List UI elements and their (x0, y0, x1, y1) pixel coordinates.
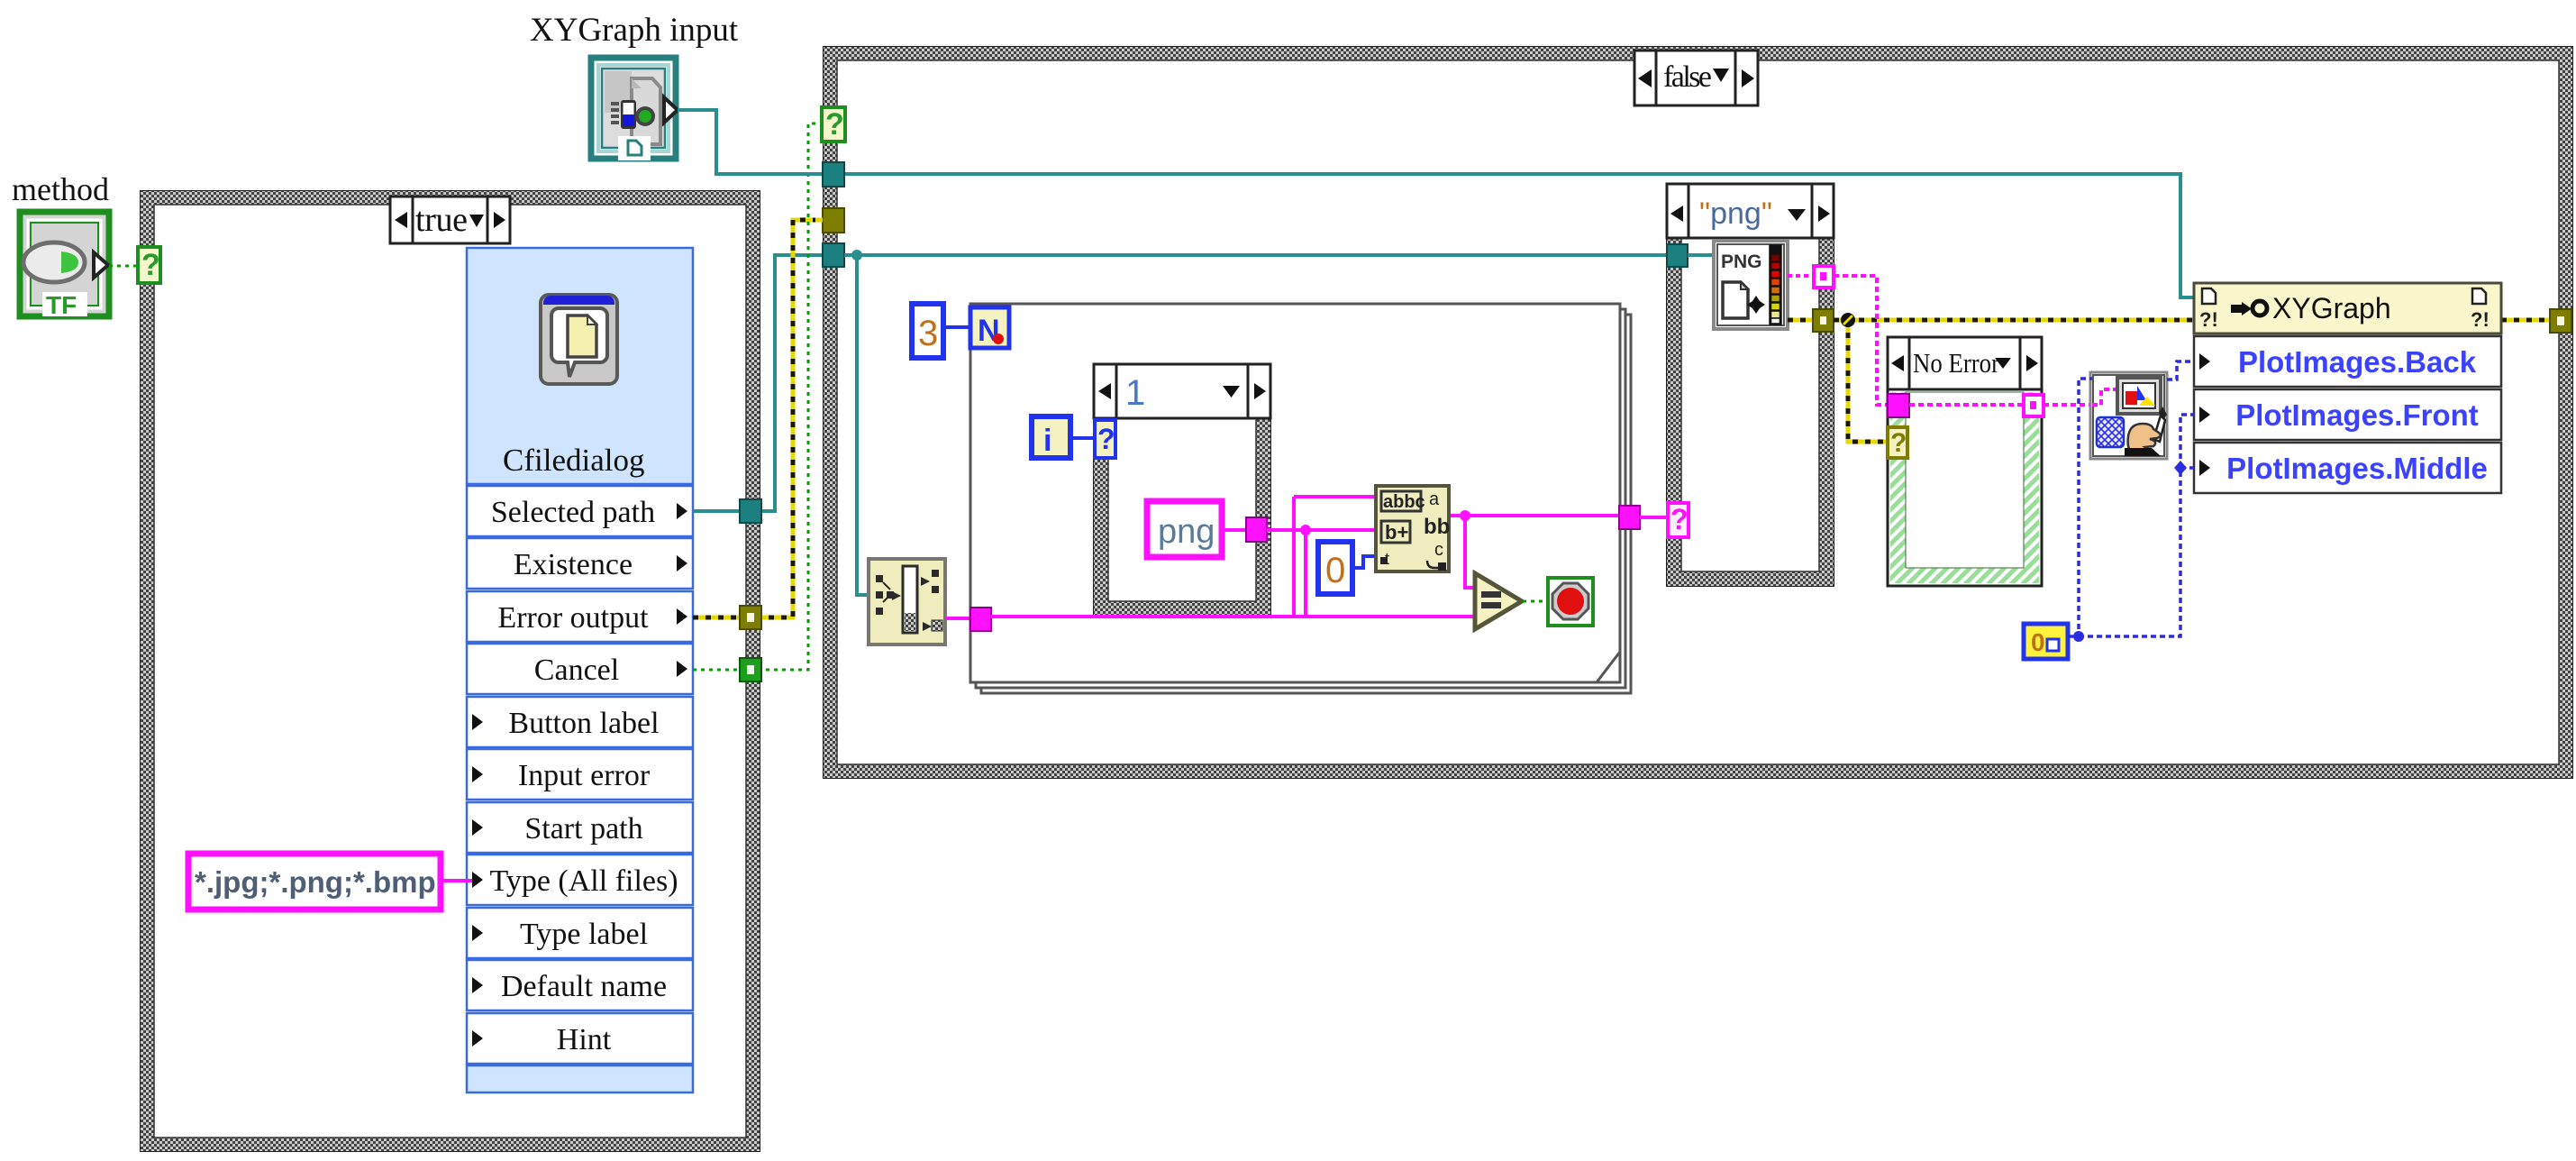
property node rows (467, 486, 693, 1092)
svg-text:Input error: Input error (518, 759, 651, 792)
wire image data (pink dotted) PNG -> tunnel (1788, 274, 1813, 278)
control terminal XYGraph input (teal refnum) (591, 58, 678, 160)
svg-text:false: false (1663, 60, 1712, 94)
wire picture (blue): constant -> draw vi input (2068, 379, 2092, 636)
svg-text:3: 3 (918, 314, 938, 353)
row arrows (472, 503, 687, 1047)
boolean stop terminal (1548, 578, 1593, 626)
tunnel path (png case, teal) (1667, 244, 1688, 267)
function search/replace string (abbc) (1376, 486, 1450, 571)
property node Cfiledialog : header (467, 248, 693, 484)
svg-text:b+: b+ (1385, 521, 1408, 544)
tunnel XYGraph refnum (false case, teal) (823, 162, 844, 187)
case selector terminal ? (green) on false case (822, 107, 845, 142)
svg-text:bb: bb (1424, 515, 1450, 539)
tunnel image data in (No Error case, pink) (1888, 394, 1909, 417)
svg-text:Error output: Error output (497, 601, 649, 635)
selector label "false" (1634, 50, 1758, 105)
olive stub left of tunnel (815, 218, 823, 223)
string constant png (1147, 501, 1222, 557)
comparison equal? (1475, 573, 1522, 629)
svg-text:Type label: Type label (520, 918, 648, 951)
tunnel Error output (true case) (740, 606, 761, 629)
svg-text:Default name: Default name (501, 970, 667, 1003)
svg-text:TF: TF (46, 291, 77, 319)
junction picture wire (2073, 631, 2084, 642)
svg-text:PlotImages.Middle: PlotImages.Middle (2226, 452, 2488, 485)
wire image data inside No Error (pink dotted) (1909, 403, 2023, 407)
svg-text:i: i (1043, 424, 1051, 458)
wire picture (blue): draw vi out -> Back (2167, 361, 2194, 379)
svg-text:*.jpg;*.png;*.bmp: *.jpg;*.png;*.bmp (195, 865, 436, 899)
wire image data (pink) tunnel -> No Error case (1834, 276, 1889, 405)
svg-text:png: png (1158, 513, 1215, 551)
junction error wire (1841, 313, 1855, 327)
wire boolean method -> case selector (109, 265, 141, 268)
svg-text:abbc: abbc (1383, 492, 1425, 512)
inner CASE structure (selector "1") (1094, 418, 1270, 616)
wire image data -> draw vi (pink dotted) (2044, 403, 2092, 407)
selector label "true" (390, 197, 510, 243)
wire filenames array (pink) icon -> for loop (945, 617, 970, 620)
tunnel png string (inner case, pink) (1246, 517, 1267, 542)
svg-text:method: method (12, 171, 109, 207)
svg-text:"png": "png" (1699, 197, 1772, 231)
pink wires: png string to search node and compare (991, 497, 1619, 617)
svg-text:0: 0 (2031, 628, 2045, 656)
wire picture (blue): constant -> Front/Middle (2079, 415, 2194, 636)
svg-text:?!: ?! (2199, 308, 2218, 331)
svg-text:XYGraph input: XYGraph input (530, 12, 739, 49)
svg-text:Button label: Button label (508, 707, 659, 740)
wire XYGraph refnum (teal, long) (678, 110, 2194, 297)
tunnel image data (png case right) (1814, 266, 1834, 288)
svg-text:?!: ?! (2471, 308, 2490, 331)
string constant *.jpg;*.png;*.bmp (188, 854, 441, 910)
wire selected path inside false case (teal) (844, 253, 1669, 257)
svg-text:Start path: Start path (524, 812, 642, 846)
svg-text:PlotImages.Front: PlotImages.Front (2235, 398, 2479, 432)
vi Draw Flattened Pixmap (2090, 372, 2167, 459)
svg-text:PNG: PNG (1721, 251, 1762, 272)
svg-text:?: ? (1097, 423, 1115, 455)
loop count terminal N (970, 307, 1009, 348)
wire path -> PNG vi (1688, 253, 1714, 257)
tunnel filenames (for loop, pink) (970, 608, 991, 631)
svg-text:Type (All files): Type (All files) (489, 864, 678, 898)
case structure TRUE (outer frame) (141, 191, 760, 1151)
tunnel error out (false case right, olive) (2550, 309, 2571, 333)
wire i -> inner case selector (blue) (1070, 436, 1096, 440)
svg-text:?: ? (1890, 428, 1907, 458)
numeric constant 0 (1318, 542, 1352, 594)
wire error long (olive) tunnel -> property node -> out (1834, 320, 2551, 442)
svg-text:?: ? (1670, 503, 1689, 535)
svg-text:?: ? (825, 107, 844, 142)
wire equal -> stop (green dotted) (1523, 600, 1548, 603)
property node XYGraph : header (2194, 283, 2501, 334)
wire 0 -> search node (blue) (1352, 556, 1376, 568)
svg-text:Hint: Hint (557, 1023, 612, 1056)
wire png -> tunnel (1222, 528, 1247, 532)
tunnel error (false case, olive) (823, 208, 844, 233)
case structure "png" (1667, 238, 1834, 586)
case selector terminal ? (green) on true case (138, 247, 160, 283)
wire Selected path (teal) (693, 255, 824, 511)
svg-text:?: ? (141, 248, 160, 282)
wire error (olive) PNG -> right (1788, 318, 1813, 323)
numeric constant 3 (912, 304, 943, 358)
tunnel Selected path (true case) (740, 499, 761, 523)
vi Read PNG File (1714, 241, 1788, 329)
svg-text:Cancel: Cancel (534, 654, 619, 687)
svg-text:true: true (415, 201, 468, 239)
tunnel match result (for loop right, pink) (1619, 506, 1640, 529)
case selector terminal ? (No Error, olive) (1888, 427, 1907, 458)
selector label "png" (1667, 184, 1834, 238)
tunnel image data out (No Error right) (2024, 395, 2044, 416)
case structure "No Error" (1888, 389, 2042, 586)
selector label "1" (1094, 364, 1270, 418)
case selector terminal ? (png case, pink) (1668, 503, 1689, 537)
case selector terminal ? (inner case) (1095, 420, 1115, 458)
wire string constant -> Type row (441, 879, 472, 882)
tunnel selected path (false case, teal) (823, 243, 844, 267)
tunnel error (png case right, olive) (1813, 309, 1834, 332)
wire 3 -> N (blue) (943, 325, 970, 329)
selector label "No Error" (1888, 337, 2042, 389)
property node XYGraph : rows (2194, 336, 2501, 493)
iteration terminal i (1032, 416, 1070, 458)
svg-text:c: c (1434, 540, 1443, 560)
wire Error output (olive) (693, 220, 824, 617)
svg-text:Cfiledialog: Cfiledialog (503, 443, 644, 478)
wire Cancel (green dotted) (693, 123, 824, 670)
boolean control method (TF) (20, 212, 109, 319)
picture constant 0 0 (empty picture) (2024, 624, 2068, 659)
case structure FALSE (outer frame) (824, 47, 2572, 778)
svg-text:Selected path: Selected path (491, 496, 655, 529)
tunnel Cancel (true case) (740, 658, 761, 681)
svg-text:XYGraph: XYGraph (2272, 292, 2391, 325)
wire tunnel -> png case selector (1640, 516, 1669, 519)
FOR loop (stacked frames) (970, 304, 1631, 693)
svg-text:1: 1 (1125, 373, 1145, 413)
svg-text:PlotImages.Back: PlotImages.Back (2238, 345, 2477, 379)
svg-text:a: a (1429, 489, 1440, 509)
svg-text:Existence: Existence (514, 548, 633, 581)
svg-text:0: 0 (1325, 551, 1345, 590)
vi icon list-files (recursive file list) (869, 559, 945, 644)
svg-text:No Error: No Error (1913, 347, 2000, 379)
